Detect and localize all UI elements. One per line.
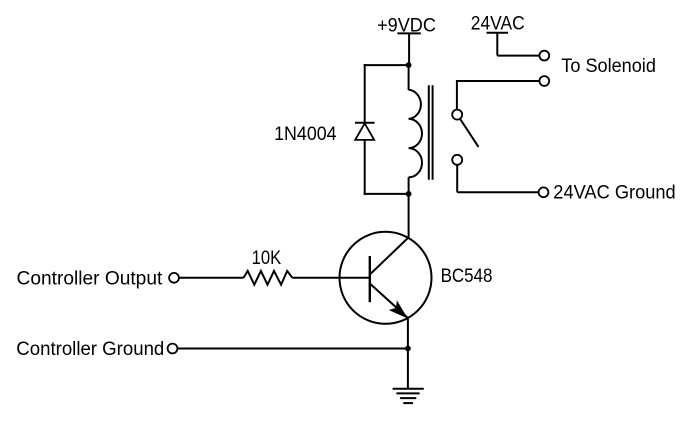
wire NO contact vertical: [456, 80, 458, 110]
wire emitter lead: [407, 318, 409, 349]
wire lower contact vertical: [456, 165, 458, 193]
ground: [393, 389, 424, 403]
svg-text:24VAC Ground: 24VAC Ground: [553, 182, 675, 203]
wire 24VAC to solenoid terminal: [497, 55, 539, 57]
svg-text:24VAC: 24VAC: [471, 14, 525, 35]
wire collector lead: [408, 194, 410, 238]
wire junction to diode branch: [364, 64, 409, 66]
wire diode cathode lead: [364, 64, 366, 123]
wire +9VDC lead: [408, 33, 410, 65]
diode D1 1N4004 symbol: [355, 123, 375, 140]
wire diode anode lead: [364, 140, 366, 195]
wire ground lead: [407, 349, 409, 389]
junction node bottom of coil: [406, 191, 412, 197]
svg-text:10K: 10K: [252, 248, 282, 269]
junction node top: [406, 62, 412, 68]
terminal Controller Output: [169, 273, 179, 283]
relay contact lower pivot: [452, 155, 462, 165]
relay coil K1: [409, 90, 422, 178]
wire 24VAC lead: [496, 33, 498, 56]
relay switch arm: [460, 119, 478, 147]
junction node emitter ground: [405, 346, 411, 352]
relay contact upper pivot: [452, 110, 462, 120]
svg-text:To Solenoid: To Solenoid: [561, 56, 656, 77]
relay core lines: [429, 85, 433, 180]
wire coil top lead: [408, 65, 410, 90]
power +9VDC symbol bar: [397, 32, 420, 34]
wire coil bottom lead: [408, 177, 410, 194]
svg-text:Controller Ground: Controller Ground: [16, 339, 164, 360]
svg-text:BC548: BC548: [441, 266, 493, 287]
wire NO contact horizontal: [457, 80, 540, 82]
terminal relay NO contact: [539, 76, 549, 86]
wire lower contact horizontal: [457, 191, 538, 193]
svg-text:1N4004: 1N4004: [274, 124, 337, 145]
wire controller output to resistor: [179, 277, 244, 279]
terminal To Solenoid: [539, 51, 549, 61]
power 24VAC symbol bar: [487, 32, 509, 34]
svg-text:Controller Output: Controller Output: [17, 268, 164, 289]
wire resistor to base: [292, 277, 369, 279]
wire diode branch to bottom junction: [364, 193, 409, 195]
resistor R1 10K: [244, 271, 293, 285]
wire controller ground: [177, 348, 408, 350]
terminal 24VAC Ground: [539, 187, 549, 197]
transistor Q1 BC548: [340, 232, 432, 324]
terminal Controller Ground: [168, 344, 178, 354]
